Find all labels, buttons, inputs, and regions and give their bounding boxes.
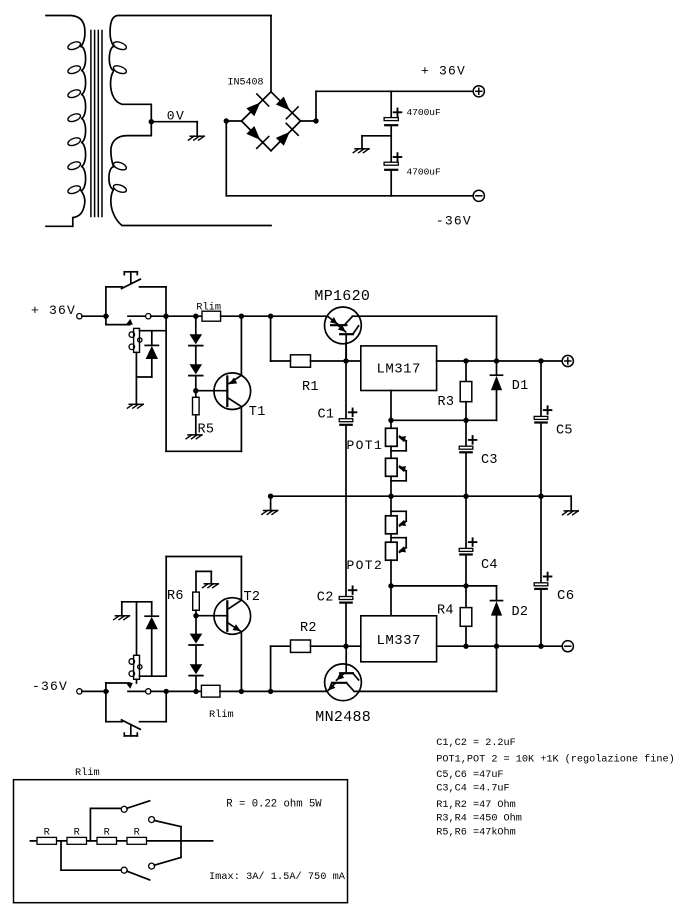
svg-text:C6: C6 bbox=[557, 588, 574, 604]
svg-text:D1: D1 bbox=[512, 379, 529, 394]
svg-text:4700uF: 4700uF bbox=[407, 166, 442, 177]
svg-text:C3,C4 =4.7uF: C3,C4 =4.7uF bbox=[436, 783, 509, 794]
svg-text:LM337: LM337 bbox=[376, 633, 421, 649]
svg-text:MN2488: MN2488 bbox=[315, 709, 371, 726]
svg-text:R3,R4 =450 Ohm: R3,R4 =450 Ohm bbox=[436, 813, 522, 825]
svg-text:0V: 0V bbox=[167, 108, 186, 123]
svg-text:POT2: POT2 bbox=[347, 558, 384, 573]
svg-text:Rlim: Rlim bbox=[209, 709, 234, 721]
svg-text:R4: R4 bbox=[437, 604, 454, 619]
svg-text:R1: R1 bbox=[302, 380, 319, 395]
svg-text:Imax: 3A/ 1.5A/ 750 mA: Imax: 3A/ 1.5A/ 750 mA bbox=[209, 871, 346, 883]
svg-text:R: R bbox=[104, 826, 110, 838]
svg-text:R: R bbox=[134, 826, 140, 838]
svg-text:C1,C2 = 2.2uF: C1,C2 = 2.2uF bbox=[436, 738, 515, 749]
svg-text:C4: C4 bbox=[481, 558, 498, 573]
svg-text:+ 36V: + 36V bbox=[31, 303, 76, 318]
svg-text:R3: R3 bbox=[438, 395, 455, 410]
svg-text:+ 36V: + 36V bbox=[421, 64, 466, 79]
svg-text:-36V: -36V bbox=[436, 214, 472, 229]
svg-text:4700uF: 4700uF bbox=[407, 107, 442, 118]
svg-text:C2: C2 bbox=[317, 590, 334, 605]
svg-text:MP1620: MP1620 bbox=[314, 288, 370, 305]
svg-text:POT1,POT 2 = 10K +1K (regolazi: POT1,POT 2 = 10K +1K (regolazione fine) bbox=[436, 754, 674, 766]
svg-text:IN5408: IN5408 bbox=[228, 77, 264, 88]
svg-text:R6: R6 bbox=[167, 589, 184, 604]
svg-text:Rlim: Rlim bbox=[75, 767, 100, 779]
svg-text:T1: T1 bbox=[249, 405, 266, 420]
svg-text:T2: T2 bbox=[244, 590, 261, 605]
svg-text:R2: R2 bbox=[300, 621, 317, 636]
svg-text:POT1: POT1 bbox=[347, 438, 384, 453]
svg-text:D2: D2 bbox=[512, 605, 529, 620]
svg-text:Rlim: Rlim bbox=[196, 301, 221, 313]
svg-text:C5,C6 =47uF: C5,C6 =47uF bbox=[436, 770, 503, 781]
svg-text:C5: C5 bbox=[556, 424, 573, 439]
svg-text:R = 0.22 ohm 5W: R = 0.22 ohm 5W bbox=[226, 799, 322, 811]
svg-text:R5,R6 =47kOhm: R5,R6 =47kOhm bbox=[436, 827, 515, 839]
svg-text:C3: C3 bbox=[481, 453, 498, 468]
svg-text:R1,R2 =47 Ohm: R1,R2 =47 Ohm bbox=[436, 799, 515, 811]
svg-text:C1: C1 bbox=[318, 408, 335, 423]
svg-text:LM317: LM317 bbox=[376, 362, 421, 378]
svg-text:-36V: -36V bbox=[32, 679, 68, 694]
svg-text:R5: R5 bbox=[198, 423, 215, 438]
svg-text:R: R bbox=[74, 826, 80, 838]
svg-text:R: R bbox=[44, 826, 50, 838]
